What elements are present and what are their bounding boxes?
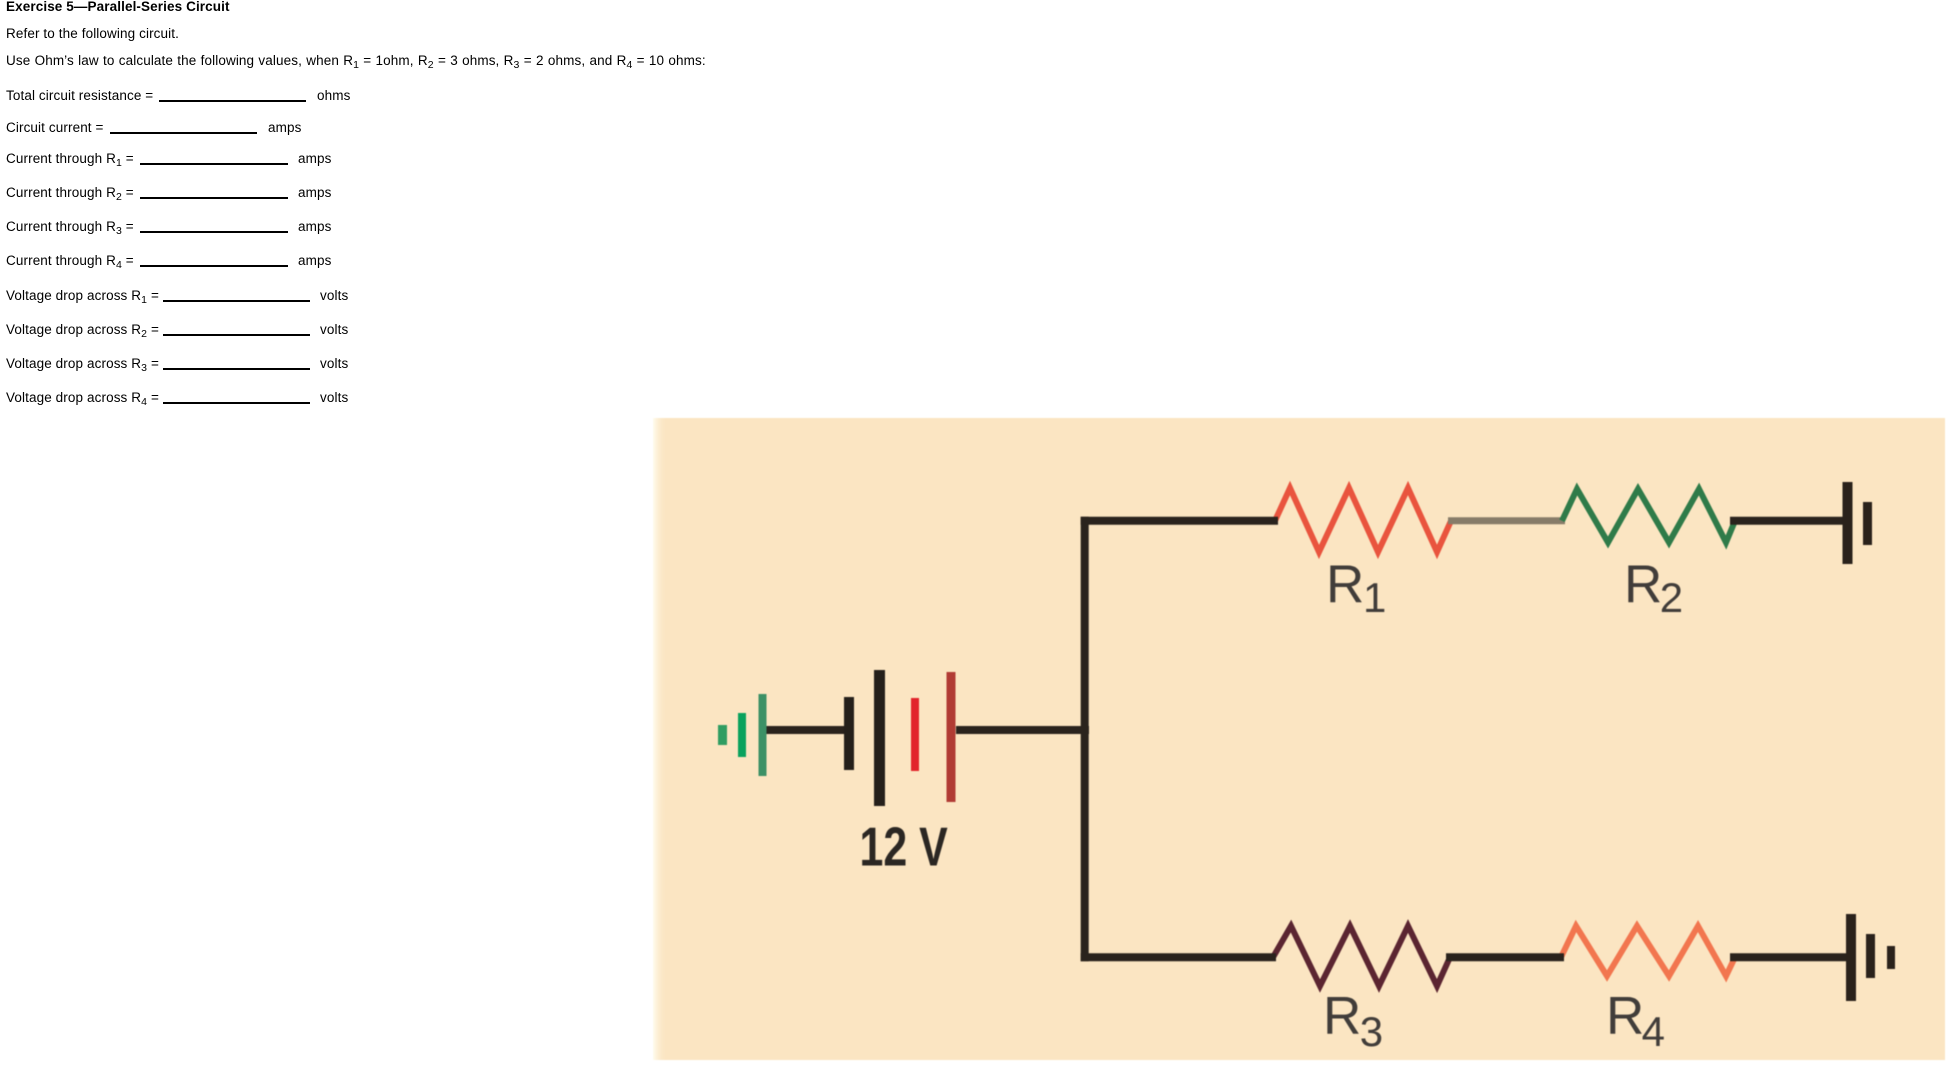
- wire: battery to trunk: [956, 726, 1089, 734]
- wire: R2 to top-right terminal: [1730, 517, 1845, 525]
- wire: trunk vertical: [1081, 521, 1089, 957]
- bottom-right terminal stub bar: [1887, 946, 1895, 969]
- wire: R4 to bottom-right terminal: [1730, 953, 1849, 961]
- svg-text:2: 2: [1660, 574, 1683, 621]
- row 3: Current through R1: [6, 151, 134, 167]
- row 6: Current through R4: [6, 253, 134, 269]
- wire: green plate to black plate: [766, 726, 849, 734]
- title: [6, 0, 230, 15]
- circuit figure panel: [653, 418, 1945, 1060]
- svg-text:R: R: [1323, 987, 1361, 1046]
- resistor R2 zigzag (green): [1562, 489, 1735, 543]
- top-right terminal long bar: [1843, 482, 1853, 564]
- battery red long plate: [947, 672, 956, 802]
- battery green medium plate: [738, 713, 746, 757]
- bottom-right terminal long bar: [1846, 914, 1856, 1001]
- battery red medium plate: [911, 698, 919, 771]
- paragraph 1: [6, 26, 179, 42]
- svg-text:12 V: 12 V: [860, 816, 948, 877]
- panel background: [653, 418, 1945, 1060]
- row 5: Current through R3: [6, 219, 134, 235]
- row 9: Voltage drop across R3: [6, 356, 159, 372]
- svg-text:R: R: [1624, 555, 1662, 614]
- row 1: Total circuit resistance: [6, 88, 153, 104]
- paragraph 2: [6, 53, 706, 69]
- resistor R3 zigzag (maroon): [1273, 926, 1450, 986]
- row 4: Current through R2: [6, 185, 134, 201]
- wire: top branch from trunk to R1: [1081, 517, 1278, 525]
- row 2: Circuit current: [6, 120, 104, 136]
- svg-text:R: R: [1606, 987, 1644, 1046]
- battery green long plate: [759, 694, 767, 776]
- resistor R4 zigzag (orange): [1561, 926, 1735, 976]
- svg-text:R: R: [1326, 555, 1364, 614]
- battery green stub plate: [718, 725, 727, 745]
- row 10: Voltage drop across R4: [6, 390, 159, 406]
- wire: R3 to R4: [1446, 953, 1564, 961]
- resistor R1 zigzag (red): [1275, 488, 1451, 552]
- battery black long plate: [874, 670, 885, 806]
- row 8: Voltage drop across R2: [6, 322, 159, 338]
- row 7: Voltage drop across R1: [6, 288, 159, 304]
- svg-text:3: 3: [1360, 1008, 1383, 1055]
- wire R1-R2 (tan): [1448, 517, 1565, 524]
- svg-text:4: 4: [1642, 1008, 1665, 1055]
- svg-text:1: 1: [1363, 574, 1386, 621]
- battery black medium plate: [844, 697, 854, 770]
- wire: bottom branch from trunk to R3: [1081, 953, 1276, 961]
- top-right terminal short bar: [1863, 502, 1872, 545]
- bottom-right terminal medium bar: [1866, 934, 1875, 978]
